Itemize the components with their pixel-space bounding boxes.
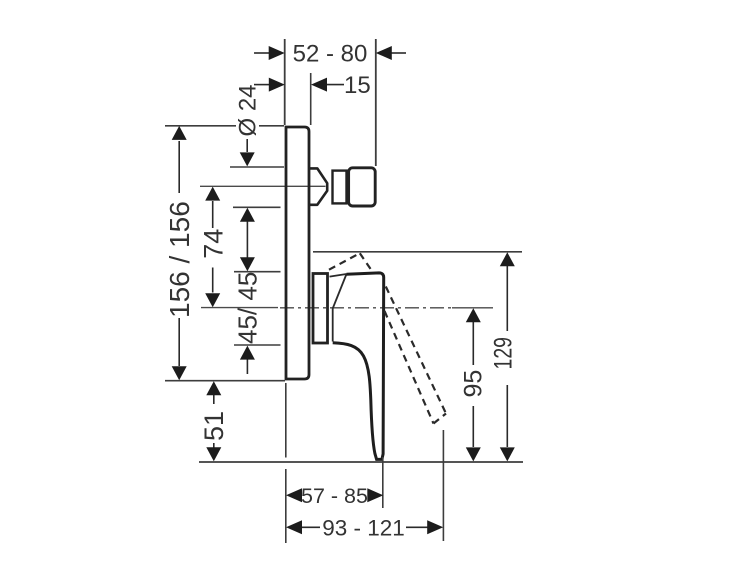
extension line spout bottom (233, 206, 281, 208)
svg-text:Ø 24: Ø 24 (235, 84, 262, 136)
dimension 15 arrows (254, 84, 344, 86)
extension line plate bottom (165, 380, 285, 382)
extension line plate face top (310, 73, 312, 125)
extension line dashed tip bottom (442, 430, 444, 541)
centerline valve axis left solid (201, 307, 278, 309)
svg-text:15: 15 (344, 72, 371, 99)
handle lever (333, 273, 384, 460)
extension line valve top (234, 271, 281, 273)
extension line plate top (165, 125, 284, 127)
wall plate (286, 127, 309, 379)
dimension 52-80 line and arrows (254, 52, 406, 54)
dashed lever open outer edge (386, 287, 446, 414)
dimension 57-85 arrows (286, 488, 302, 502)
handle cap top edge (330, 274, 347, 277)
valve body (313, 274, 328, 344)
dimension 45 upper line (246, 221, 248, 258)
dimension 45 lower arrow (246, 357, 248, 374)
dashed lever raised top edge (329, 253, 360, 270)
centerline spout axis (200, 185, 326, 187)
spout bullet (310, 168, 327, 204)
dimension 51 line (213, 394, 215, 448)
dimension 129 line (506, 266, 508, 447)
handle cap front face (332, 309, 334, 342)
extension line lever tip bottom (382, 457, 384, 508)
svg-text:45/ 45: 45/ 45 (233, 272, 263, 344)
floor line (199, 461, 523, 463)
dashed lever open tip cap (434, 414, 447, 424)
extension line spout top (230, 166, 284, 168)
svg-text:129: 129 (489, 337, 517, 370)
dimension 95 line (472, 321, 474, 447)
extension line spout face top (375, 39, 377, 166)
dimension diameter 24 leader (246, 139, 248, 152)
dimension 156/156 line (178, 141, 180, 366)
svg-text:57 - 85: 57 - 85 (301, 484, 368, 508)
dashed lever raised tip edge (360, 253, 373, 271)
dimension 74 line (212, 201, 214, 293)
extension line wall face bottom (285, 383, 287, 543)
svg-text:52 - 80: 52 - 80 (293, 40, 368, 67)
spout mid piece (333, 171, 347, 204)
dimension 93-121 line (300, 526, 428, 528)
svg-text:51: 51 (199, 411, 229, 441)
extension line handle max height (313, 251, 522, 253)
svg-text:74: 74 (198, 229, 228, 259)
svg-text:95: 95 (460, 370, 488, 398)
centerline valve axis dash-dot (280, 307, 455, 309)
spout end piece (349, 168, 376, 206)
dashed lever open inner edge (385, 311, 434, 424)
svg-text:156 / 156: 156 / 156 (164, 201, 195, 318)
handle cap slant face (333, 274, 347, 309)
extension line valve bottom (234, 344, 281, 346)
extension line wall face top (284, 39, 286, 125)
svg-text:93 - 121: 93 - 121 (322, 516, 405, 541)
